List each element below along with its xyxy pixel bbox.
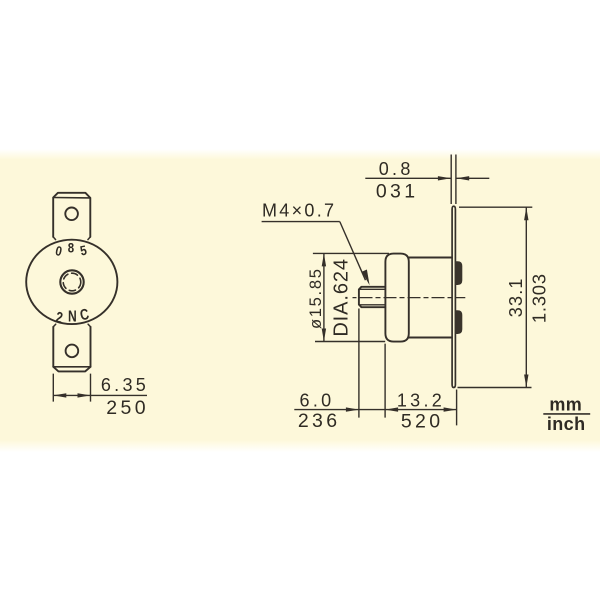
front view: bottom tab end line	[53, 366, 90, 368]
dim dia15.85 dimension line	[323, 253, 325, 341]
side view: body top edge	[409, 257, 452, 259]
svg-text:236: 236	[298, 410, 341, 432]
front view: body ellipse	[26, 240, 117, 324]
dim 6.0 right-pointing arrow at stud tip	[346, 407, 359, 411]
dim 6.0/13.2 left-pointing arrow at cap face	[385, 407, 398, 411]
dim 0.8 tail line right	[456, 177, 489, 179]
dim dia15.85 top extension line	[313, 252, 389, 254]
dim 0.8 left arrow	[438, 176, 451, 180]
front view: top terminal tab outline	[53, 193, 90, 237]
svg-text:6.0: 6.0	[300, 391, 335, 411]
svg-text:8: 8	[68, 241, 74, 256]
svg-text:M4×0.7: M4×0.7	[262, 201, 336, 221]
dim 0.8 extension lines	[451, 155, 456, 205]
front view: bottom tab hole	[66, 345, 79, 358]
svg-text:inch: inch	[547, 414, 586, 434]
dim 33.1 top arrow	[524, 207, 528, 220]
side view: lower terminal bump	[456, 311, 462, 333]
label M4x0.7 leader line	[340, 222, 366, 281]
dim 6.35 left arrow	[53, 393, 66, 397]
svg-text:0.8: 0.8	[379, 159, 414, 179]
dim 6.35 right arrow	[78, 393, 91, 397]
svg-text:mm: mm	[549, 395, 582, 415]
side view: center line	[353, 297, 466, 299]
svg-text:33.1: 33.1	[506, 277, 526, 317]
dim dia15.85 bottom extension line	[315, 341, 385, 343]
label M4x0.7 leader arrowhead	[362, 270, 370, 286]
svg-text:520: 520	[401, 411, 444, 433]
legend fraction bar	[543, 413, 590, 415]
front view: top tab hole	[65, 208, 78, 221]
dim 33.1 top extension line	[459, 206, 532, 208]
dim 0.8 dimension line left	[365, 177, 451, 179]
dim 6.0 / 13.2 dimension line	[294, 409, 456, 411]
side view: mounting flange	[452, 206, 455, 387]
svg-text:13.2: 13.2	[397, 390, 445, 410]
svg-text:N: N	[68, 307, 77, 325]
dim 6.35 extension lines	[53, 374, 90, 402]
yellow image band	[0, 149, 600, 452]
dim 33.1 bottom extension line	[458, 387, 532, 389]
svg-text:6.35: 6.35	[101, 375, 149, 395]
side view: front cap (rounded)	[385, 254, 408, 342]
label M4x0.7 underline	[262, 221, 340, 223]
dim 6.0 / 13.2 extension lines	[359, 309, 457, 426]
dim 33.1 dimension line	[525, 207, 527, 387]
side view: upper terminal bump	[456, 262, 462, 284]
front view: center boss outer circle	[60, 270, 83, 293]
dim dia15.85 bottom arrow	[322, 329, 326, 342]
front view: top tab fold line	[53, 197, 90, 199]
svg-text:DIA.624: DIA.624	[330, 258, 352, 337]
dim 0.8 right arrow	[456, 176, 469, 180]
front view: bottom terminal tab outline	[53, 327, 90, 367]
svg-text:031: 031	[376, 180, 419, 202]
side view: threaded stud outline	[359, 287, 385, 307]
svg-text:250: 250	[106, 397, 149, 419]
side view: body bottom edge	[409, 337, 452, 339]
dim 6.35 dimension line	[53, 394, 147, 396]
front view: bottom tab neck notches	[53, 324, 90, 327]
front view: bottom tab chamfered tip	[53, 367, 90, 372]
side view: stud thread root lines	[360, 289, 385, 305]
svg-text:1.303: 1.303	[529, 273, 550, 323]
front view: top tab neck notches	[53, 237, 90, 240]
dim 33.1 bottom arrow	[524, 375, 528, 388]
dim dia15.85 top arrow	[322, 253, 326, 266]
svg-text:ø15.85: ø15.85	[307, 267, 325, 329]
dim 13.2 right arrow at flange	[444, 407, 457, 411]
front view: center boss dashed circle	[63, 273, 81, 291]
